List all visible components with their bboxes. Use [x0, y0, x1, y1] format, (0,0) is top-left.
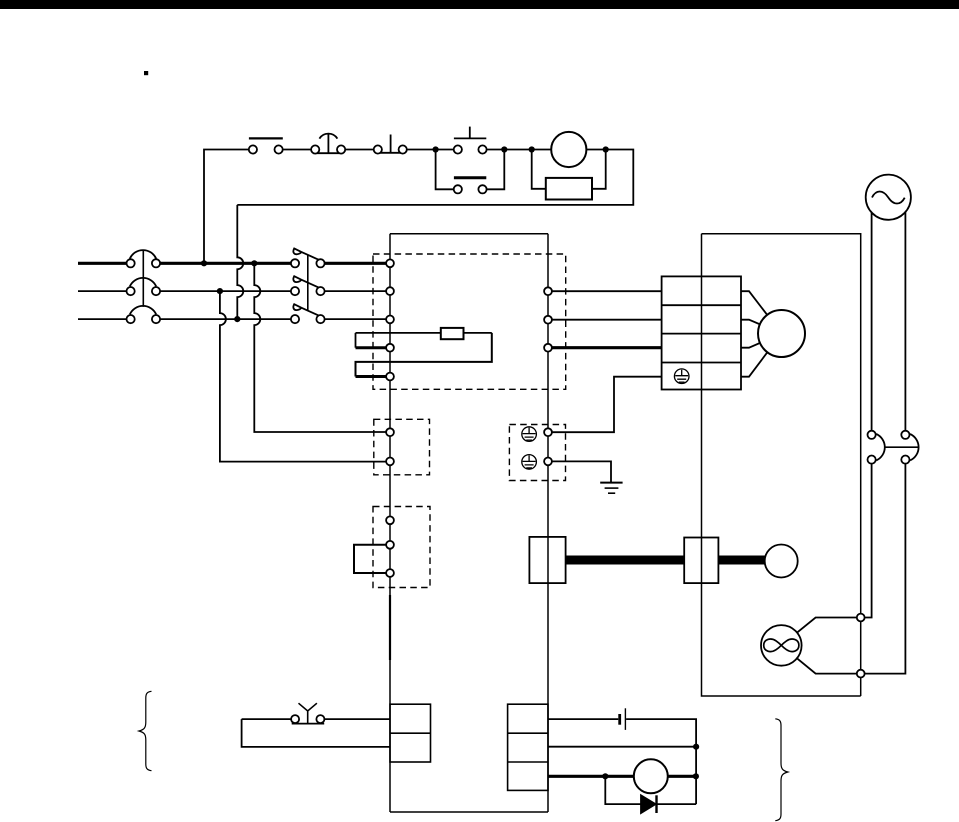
node row1 b	[251, 260, 257, 266]
output terminal W	[544, 344, 552, 352]
wire phase R row1 thick	[78, 262, 386, 265]
terminal D	[386, 569, 394, 577]
connector CN1A box	[390, 704, 431, 762]
forced stop switch bridge	[292, 723, 325, 725]
wire lamp lead top	[781, 618, 860, 646]
motor lead V	[741, 320, 782, 334]
input terminal L3	[386, 316, 394, 324]
node battery mid	[693, 744, 699, 750]
terminal C	[386, 541, 394, 549]
wire phase S row2	[78, 290, 386, 292]
forced stop switch Y lever	[299, 703, 317, 723]
wire control feed riser	[204, 150, 249, 264]
contactor MC contacts	[291, 259, 299, 267]
node row3	[234, 316, 240, 322]
wire reactor loop top	[356, 332, 492, 334]
servo amplifier box	[390, 234, 548, 812]
PE symbol circle 1	[522, 427, 537, 442]
encoder cable amplifier side	[566, 556, 685, 565]
wire ON button to coil MC	[487, 149, 552, 151]
diode surge	[641, 795, 656, 813]
pushbutton ON stem	[469, 127, 471, 139]
wire resistor to node	[592, 150, 606, 189]
breaker NFB contacts	[127, 259, 135, 267]
input terminal L2	[386, 287, 394, 295]
switch SW1 contacts	[249, 145, 257, 153]
breaker lamp arc pole1	[876, 434, 884, 460]
output terminal V	[544, 316, 552, 324]
wire reactor loop return	[356, 333, 492, 377]
wire output V	[548, 319, 662, 321]
lamp filament infinity	[764, 639, 799, 651]
motor lead ground	[741, 334, 782, 377]
node control 3	[529, 146, 535, 152]
forced stop switch contacts	[291, 715, 299, 723]
dashed box regenerative terminals	[373, 507, 430, 588]
switch SW2 contacts	[311, 145, 319, 153]
wire coil branch down	[532, 150, 546, 189]
switch SW1 NC contact bar	[249, 137, 283, 139]
connector CN2	[529, 537, 565, 583]
grounding terminal PE1	[544, 428, 552, 436]
AC power source	[866, 175, 911, 220]
breaker lamp contacts	[868, 431, 876, 439]
title bar	[0, 0, 959, 9]
breaker lamp link	[885, 446, 919, 448]
terminal L11	[386, 428, 394, 436]
grounding terminal PE2	[544, 458, 552, 466]
wire ground terminal to earth	[552, 461, 611, 482]
wire middle	[548, 746, 696, 748]
wire SW3 to node A	[407, 149, 454, 151]
servo motor circle	[758, 310, 805, 357]
wire source drop right	[904, 212, 906, 431]
wire ON/OFF left link	[436, 150, 454, 190]
node brake left	[602, 773, 608, 779]
wire battery top	[548, 719, 696, 804]
wire source drop left	[871, 213, 873, 431]
connector CN1B box	[508, 704, 548, 790]
pushbutton OFF thick bar	[454, 176, 486, 179]
period mark	[144, 71, 148, 75]
switch SW2 bridge	[313, 152, 343, 154]
node control 4	[603, 146, 609, 152]
input terminal L1	[386, 259, 394, 267]
wire dropper L21 from row2	[220, 291, 386, 462]
dashed box main circuit	[373, 254, 566, 389]
connector encoder side	[684, 538, 718, 584]
machine box	[702, 234, 861, 696]
wire brake thick	[548, 775, 696, 778]
wire P1 jumper tab	[355, 333, 357, 348]
machine terminal bottom	[857, 670, 865, 678]
breaker lamp arc pole2	[910, 434, 918, 460]
output terminal U	[544, 287, 552, 295]
switch SW2 stem	[327, 134, 329, 153]
wire forced stop loop top	[242, 718, 390, 720]
pushbutton ON bar	[454, 137, 486, 139]
contactor MC blade pole2	[293, 276, 321, 288]
ground earth symbol	[600, 482, 622, 484]
motor lead W	[741, 334, 782, 348]
node control 2	[501, 146, 507, 152]
brace right	[775, 719, 788, 821]
brake coil circle	[634, 759, 668, 793]
lamp circle	[761, 625, 802, 666]
wire regenerative jumper P-D	[354, 545, 390, 573]
wire forced stop loop left/bottom	[242, 719, 390, 747]
breaker NFB arc pole1	[130, 250, 156, 258]
switch SW3 stem	[390, 135, 392, 153]
resistor RA surge suppressor	[546, 178, 592, 200]
wire breaker to lamp terminal top	[861, 464, 872, 618]
PE symbol circle 2	[522, 455, 537, 470]
coil MC circle	[551, 132, 586, 167]
dashed box control power terminals	[374, 419, 430, 475]
machine terminal top	[857, 614, 865, 622]
brace left	[139, 691, 152, 770]
breaker NFB arc pole2	[130, 278, 156, 286]
wire SW2 to SW3	[345, 149, 374, 151]
terminal P2	[386, 373, 394, 381]
wire output U	[548, 290, 662, 292]
node row1 a	[201, 260, 207, 266]
pushbutton OFF contacts	[454, 185, 462, 193]
PE symbol motor block	[674, 369, 689, 384]
wire dropper L11 from row1	[254, 263, 386, 432]
wire coil MC to return	[237, 150, 633, 205]
wire control return dropper	[237, 205, 243, 319]
terminal P	[386, 516, 394, 524]
wire phase T row3	[78, 318, 386, 320]
breaker NFB arc pole3	[130, 306, 156, 314]
switch SW3 bridge	[378, 152, 403, 154]
contactor MC link	[307, 255, 309, 311]
terminal P1	[386, 344, 394, 352]
reactor FR-BEL option	[441, 328, 464, 339]
node brake right	[693, 773, 699, 779]
wire ON/OFF right link	[487, 150, 505, 190]
pushbutton ON contacts	[454, 145, 462, 153]
wire output W thick	[548, 346, 662, 349]
switch SW3 contacts	[374, 145, 382, 153]
switch SW2 emergency stop dome	[319, 134, 337, 139]
breaker NFB link	[142, 251, 144, 307]
wire breaker to lamp terminal bottom	[861, 464, 906, 674]
battery MR-BAT	[618, 714, 621, 725]
node row2	[217, 288, 223, 294]
wire ground terminal to motor frame	[552, 377, 662, 433]
wire P jumper tab	[356, 375, 387, 378]
contactor MC blade pole1	[293, 248, 321, 260]
encoder cable motor side	[718, 556, 765, 565]
wire lamp lead bottom	[781, 645, 860, 673]
wire diode loop	[605, 776, 696, 804]
wire SW1 to SW2	[283, 149, 311, 151]
motor lead U	[741, 291, 782, 333]
node control 1	[433, 146, 439, 152]
motor terminal block	[662, 276, 741, 389]
encoder circle	[765, 545, 798, 578]
dashed box grounding terminals	[509, 425, 565, 481]
contactor MC blade pole3	[293, 304, 321, 316]
terminal L21	[386, 458, 394, 466]
